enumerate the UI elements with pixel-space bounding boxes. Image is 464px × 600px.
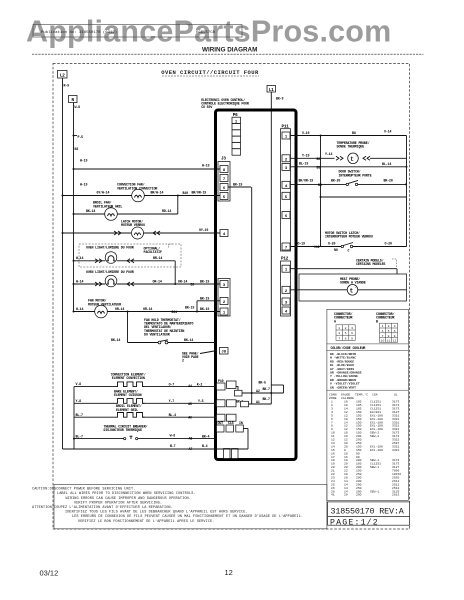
svg-text:BL-4: BL-4 [169,413,176,417]
svg-text:B9: B9 [191,282,195,286]
motor fan [95,305,108,318]
svg-text:DU VENTILATEUR: DU VENTILATEUR [144,333,170,337]
thermostat row [128,342,159,344]
svg-text:4: 4 [338,331,340,335]
svg-text:OR-14: OR-14 [153,279,162,283]
svg-text:W-19: W-19 [202,164,209,168]
svg-text:CAUTION:DISCONNECT POWER BEFOR: CAUTION:DISCONNECT POWER BEFORE SERVICIN… [32,488,135,492]
svg-text:BK-7: BK-7 [263,387,270,391]
motor broil fan [105,208,118,221]
svg-text:BL-7: BL-7 [76,413,83,417]
meat probe box [299,274,407,301]
breaker switch [124,438,126,440]
svg-text:SONDE THERMIQUE: SONDE THERMIQUE [337,145,365,149]
svg-text:OR-14: OR-14 [178,279,187,283]
bottom return wire [63,448,249,450]
wire to J3 pin2 [196,301,198,312]
node vertical feed [320,136,322,247]
svg-text:W-14: W-14 [76,256,83,260]
part number box [328,502,410,527]
svg-text:V-19: V-19 [302,131,309,135]
svg-text:°: ° [355,155,357,159]
outer dashed frame [53,64,410,530]
optional oven light dashed box [79,244,181,267]
svg-text:B-7: B-7 [170,444,176,448]
svg-text:C: C [348,249,350,253]
svg-text:7: 7 [338,336,340,340]
svg-text:BK-14: BK-14 [111,338,120,342]
svg-text:BK-20: BK-20 [384,179,393,183]
svg-text:FGB557CB: FGB557CB [196,31,216,35]
wire wrap to latch [321,196,407,198]
svg-text:SEW-2: SEW-2 [370,434,379,438]
resistor broil element [116,413,145,418]
svg-text:LABEL ALL WIRES PRIOR TO DISCO: LABEL ALL WIRES PRIOR TO DISCONNECTION W… [57,492,196,496]
svg-text:VERIFIEZ LE BON FONCTIONNEMENT: VERIFIEZ LE BON FONCTIONNEMENT DE L'APPA… [78,519,214,524]
svg-text:N2: N2 [75,147,79,151]
svg-text:WIRING DIAGRAM: WIRING DIAGRAM [202,46,257,53]
svg-text:BK/OR-19: BK/OR-19 [299,179,314,183]
svg-text:BK-9: BK-9 [276,97,283,101]
svg-text:P10: P10 [218,379,224,383]
svg-text:GN -GREEN/VERT: GN -GREEN/VERT [330,385,356,389]
svg-text:O-7: O-7 [169,383,175,387]
svg-text:ATTENTION:COUPEZ L'ALIMENTATIO: ATTENTION:COUPEZ L'ALIMENTATION AVANT D'… [32,505,173,510]
connector J3 pin4 [220,230,228,237]
wire BK-9 from L1 into board [270,92,272,404]
wire J3 pin6 to interior [228,186,251,188]
svg-text:2: 2 [388,324,390,328]
svg-text:OR-14: OR-14 [115,307,124,311]
svg-text:EXL-108: EXL-108 [370,448,383,452]
svg-text:BK-19: BK-19 [200,296,209,300]
svg-text:BR/W-14: BR/W-14 [151,191,164,195]
svg-text:B8: B8 [352,131,356,135]
svg-text:A4: A4 [188,384,192,388]
svg-text:W-14: W-14 [76,307,83,311]
svg-text:RD-14: RD-14 [162,209,171,213]
svg-text:VOIR PAGE: VOIR PAGE [182,355,199,359]
svg-text:BK-14: BK-14 [86,209,95,213]
svg-text:J8: J8 [221,351,226,355]
svg-text:PAGE:1/2: PAGE:1/2 [330,517,379,527]
terminal L1 [267,86,276,93]
svg-text:FACULTATIF: FACULTATIF [144,250,162,254]
svg-text:BK-7: BK-7 [263,397,270,401]
connector board bottom [224,449,231,459]
svg-text:BL-7: BL-7 [76,434,83,438]
svg-text:MOTEUR VERROU: MOTEUR VERROU [121,223,145,227]
svg-text:OR-14: OR-14 [143,307,152,311]
svg-text:Publication No: 318550170 (031: Publication No: 318550170 (0312) [41,30,117,35]
svg-text:W-19: W-19 [80,183,87,187]
svg-text:Y-14: Y-14 [325,152,332,156]
svg-text:5: 5 [388,329,390,333]
svg-text:41: 41 [331,493,335,497]
svg-text:10: 10 [381,339,385,343]
svg-text:IDENTIFIEZ TOUS LES FILS AVANT: IDENTIFIEZ TOUS LES FILS AVANT DE LES DE… [65,510,248,515]
svg-text:318550170 REV:A: 318550170 REV:A [331,507,405,517]
svg-text:7: 7 [382,334,384,338]
element rows [63,372,249,451]
svg-text:ELEMENT CUISSON: ELEMENT CUISSON [114,393,142,397]
svg-text:W-14: W-14 [76,279,83,283]
svg-text:2: 2 [345,326,347,330]
svg-text:5: 5 [345,331,347,335]
svg-text:A6: A6 [188,416,192,420]
wire P12 pin1 [290,268,397,270]
svg-text:BK-20: BK-20 [331,179,340,183]
svg-text:A: A [334,319,336,323]
svg-text:O-19: O-19 [298,241,305,245]
motor latch [132,227,144,239]
svg-text:A1: A1 [256,400,260,404]
svg-text:OVEN CIRCUIT//CIRCUIT FOUR: OVEN CIRCUIT//CIRCUIT FOUR [161,69,259,76]
svg-text:BK-14: BK-14 [184,338,193,342]
svg-text:Y-19: Y-19 [302,153,309,157]
svg-text:P-5: P-5 [78,135,84,139]
switch latch [341,245,343,247]
wire neutral return riser [73,387,75,449]
wire drop to thermostat row [127,312,129,343]
resistor bake element [116,399,145,404]
wire gauge table header [329,392,398,400]
svg-text:O-20: O-20 [328,241,335,245]
resistor convection element [116,382,145,387]
svg-text:3321: 3321 [392,448,399,452]
svg-text:J3: J3 [221,157,226,162]
wire interior vertical [251,187,253,404]
IC U1 electronic oven control board outline [216,110,297,460]
svg-text:OUT: OUT [218,421,224,425]
svg-text:6: 6 [351,331,353,335]
svg-text:B: B [376,319,378,323]
svg-text:BK-19: BK-19 [200,279,209,283]
svg-text:8: 8 [388,334,390,338]
svg-text:L2: L2 [60,74,65,79]
svg-text:GY/W-14: GY/W-14 [97,191,110,195]
svg-text:9: 9 [351,336,353,340]
svg-text:20: 20 [344,493,348,497]
svg-text:1: 1 [338,326,340,330]
svg-text:W-8: W-8 [170,433,176,437]
svg-text:O-20: O-20 [385,241,392,245]
title [161,69,259,76]
svg-text:CONNECTEUR: CONNECTEUR [376,316,394,320]
svg-text:BR/OR-19: BR/OR-19 [192,191,207,195]
svg-text:11: 11 [387,339,391,343]
svg-text:A5: A5 [188,402,192,406]
terminal N [69,96,78,103]
wire drop to broil fan row [177,196,179,215]
svg-text:BL-19: BL-19 [299,161,308,165]
svg-text:ELEMENT CONVECTION: ELEMENT CONVECTION [112,376,145,380]
connector J8 [220,348,229,355]
svg-text:BK-19: BK-19 [233,182,242,186]
color code legend [326,343,408,345]
svg-text:ELEMENT GRIL: ELEMENT GRIL [116,408,138,412]
table column [326,309,408,500]
svg-text:CLS: CLS [228,421,234,425]
svg-text:K-2: K-2 [197,383,203,387]
motor convection fan [132,189,145,202]
relay A2 [235,390,243,396]
svg-text:WIRING ERRORS CAN CAUSE IMPROP: WIRING ERRORS CAN CAUSE IMPROPER AND DAN… [66,497,191,501]
svg-text:2: 2 [182,359,184,363]
svg-text:12: 12 [225,568,233,577]
svg-text:BK-19: BK-19 [200,307,209,311]
svg-text:CONNECTEUR: CONNECTEUR [334,316,352,320]
svg-text:A8: A8 [189,436,193,440]
meat probe sensor [347,285,358,296]
svg-text:R-9: R-9 [64,84,70,88]
svg-text:Y-5: Y-5 [198,399,204,403]
wire P11 pin3 [290,166,407,168]
wire gauge table rows [331,400,401,497]
svg-text:B6: B6 [317,157,321,161]
wire N bus [73,103,75,312]
svg-text:9: 9 [394,334,396,338]
svg-text:Y-8: Y-8 [76,399,82,403]
svg-text:OVEN LIGHT/LUMIERE DU FOUR: OVEN LIGHT/LUMIERE DU FOUR [86,270,134,274]
svg-text:B5: B5 [317,165,321,169]
svg-text:VENTILATEUR GRIL: VENTILATEUR GRIL [93,204,122,208]
svg-text:UL: UL [394,392,398,396]
connector J3 lower [218,279,230,317]
svg-text:A7: A7 [189,447,193,451]
node P-5 [73,135,75,137]
svg-text:CU 50V: CU 50V [201,105,212,109]
svg-text:BK-5: BK-5 [259,381,266,385]
svg-text:03/12: 03/12 [40,569,59,578]
svg-text:DISJONCTEUR THERMIQUE: DISJONCTEUR THERMIQUE [104,428,143,432]
svg-text:COLOR//CODE COULEUR: COLOR//CODE COULEUR [331,346,366,350]
wire row to J3 pin8 [73,168,75,170]
relay K2 row [217,400,226,407]
svg-text:BK-19: BK-19 [185,306,194,310]
svg-text:MOTEUR VENTILATEUR: MOTEUR VENTILATEUR [88,302,121,306]
svg-text:BK-4: BK-4 [202,435,209,439]
wire right bus down [406,136,408,198]
svg-text:W-19: W-19 [80,159,87,163]
svg-text:3: 3 [394,324,396,328]
svg-text:B10: B10 [183,191,189,195]
svg-text:t: t [350,156,354,163]
svg-text:SONDE A VIANDE: SONDE A VIANDE [340,281,366,285]
svg-text:B11: B11 [172,310,178,314]
svg-text:BL-14: BL-14 [382,162,391,166]
svg-text:4: 4 [382,329,384,333]
wire drop light1 to light2 [174,261,176,284]
svg-text:B5: B5 [318,183,322,187]
wire L2 bus [62,78,64,449]
lamp oven light 1 [105,252,117,264]
svg-text:INTERRUPTEUR MOTEUR VERROU: INTERRUPTEUR MOTEUR VERROU [325,235,373,239]
svg-text:OVEN LIGHT/LUMIERE DU FOUR: OVEN LIGHT/LUMIERE DU FOUR [86,245,134,249]
relay K3 row [217,414,226,421]
svg-text:#12: #12 [314,245,320,249]
svg-text:LES ERREURS DE CONNEXION DE FI: LES ERREURS DE CONNEXION DE FILS PEUVENT… [72,514,303,519]
right rows [290,129,408,301]
svg-text:2613: 2613 [392,493,399,497]
EOC board [182,98,296,460]
svg-text:Y-7: Y-7 [169,399,175,403]
svg-text:12: 12 [393,339,397,343]
svg-text:CERTAINS MODELES: CERTAINS MODELES [356,262,385,266]
thermostat switch [158,341,161,344]
terminal L2 [58,71,68,79]
svg-text:A2: A2 [256,389,260,393]
svg-text:6: 6 [394,329,396,333]
wire P12 pin2 [290,289,347,291]
svg-text:t: t [350,287,354,294]
svg-text:TEMP,°C: TEMP,°C [355,392,368,396]
left rows [62,159,221,344]
caution text [32,485,327,529]
header publication box [33,25,242,38]
svg-text:IN: IN [239,421,243,425]
wiring diagram heading [32,46,424,54]
relay K1 row [217,383,226,390]
wire P11 pin1 temperature probe feed [290,135,407,137]
svg-text:CSA: CSA [372,392,378,396]
svg-text:NO: NO [334,248,338,252]
svg-text:INTERRUPTEUR PORTE: INTERRUPTEUR PORTE [339,173,372,177]
svg-text:SEW-1: SEW-1 [370,465,379,469]
svg-text:B-4: B-4 [202,444,208,448]
svg-text:V-14: V-14 [384,129,391,133]
svg-text:VERIFY PROPER OPERATION AFTER: VERIFY PROPER OPERATION AFTER SERVICING. [74,501,162,505]
svg-text:8: 8 [345,336,347,340]
svg-text:BR-14: BR-14 [153,256,162,260]
svg-text:3: 3 [351,326,353,330]
svg-text:W-8: W-8 [75,105,81,109]
svg-text:V-8: V-8 [76,382,82,386]
svg-text:°: ° [355,286,357,290]
switch door [346,183,348,185]
svg-text:GY-19: GY-19 [199,228,208,232]
left buses [58,71,284,450]
svg-text:200: 200 [356,493,362,497]
svg-text:1: 1 [382,324,384,328]
lamp oven light 2 [105,275,117,287]
svg-text:SEW-1: SEW-1 [370,489,379,493]
